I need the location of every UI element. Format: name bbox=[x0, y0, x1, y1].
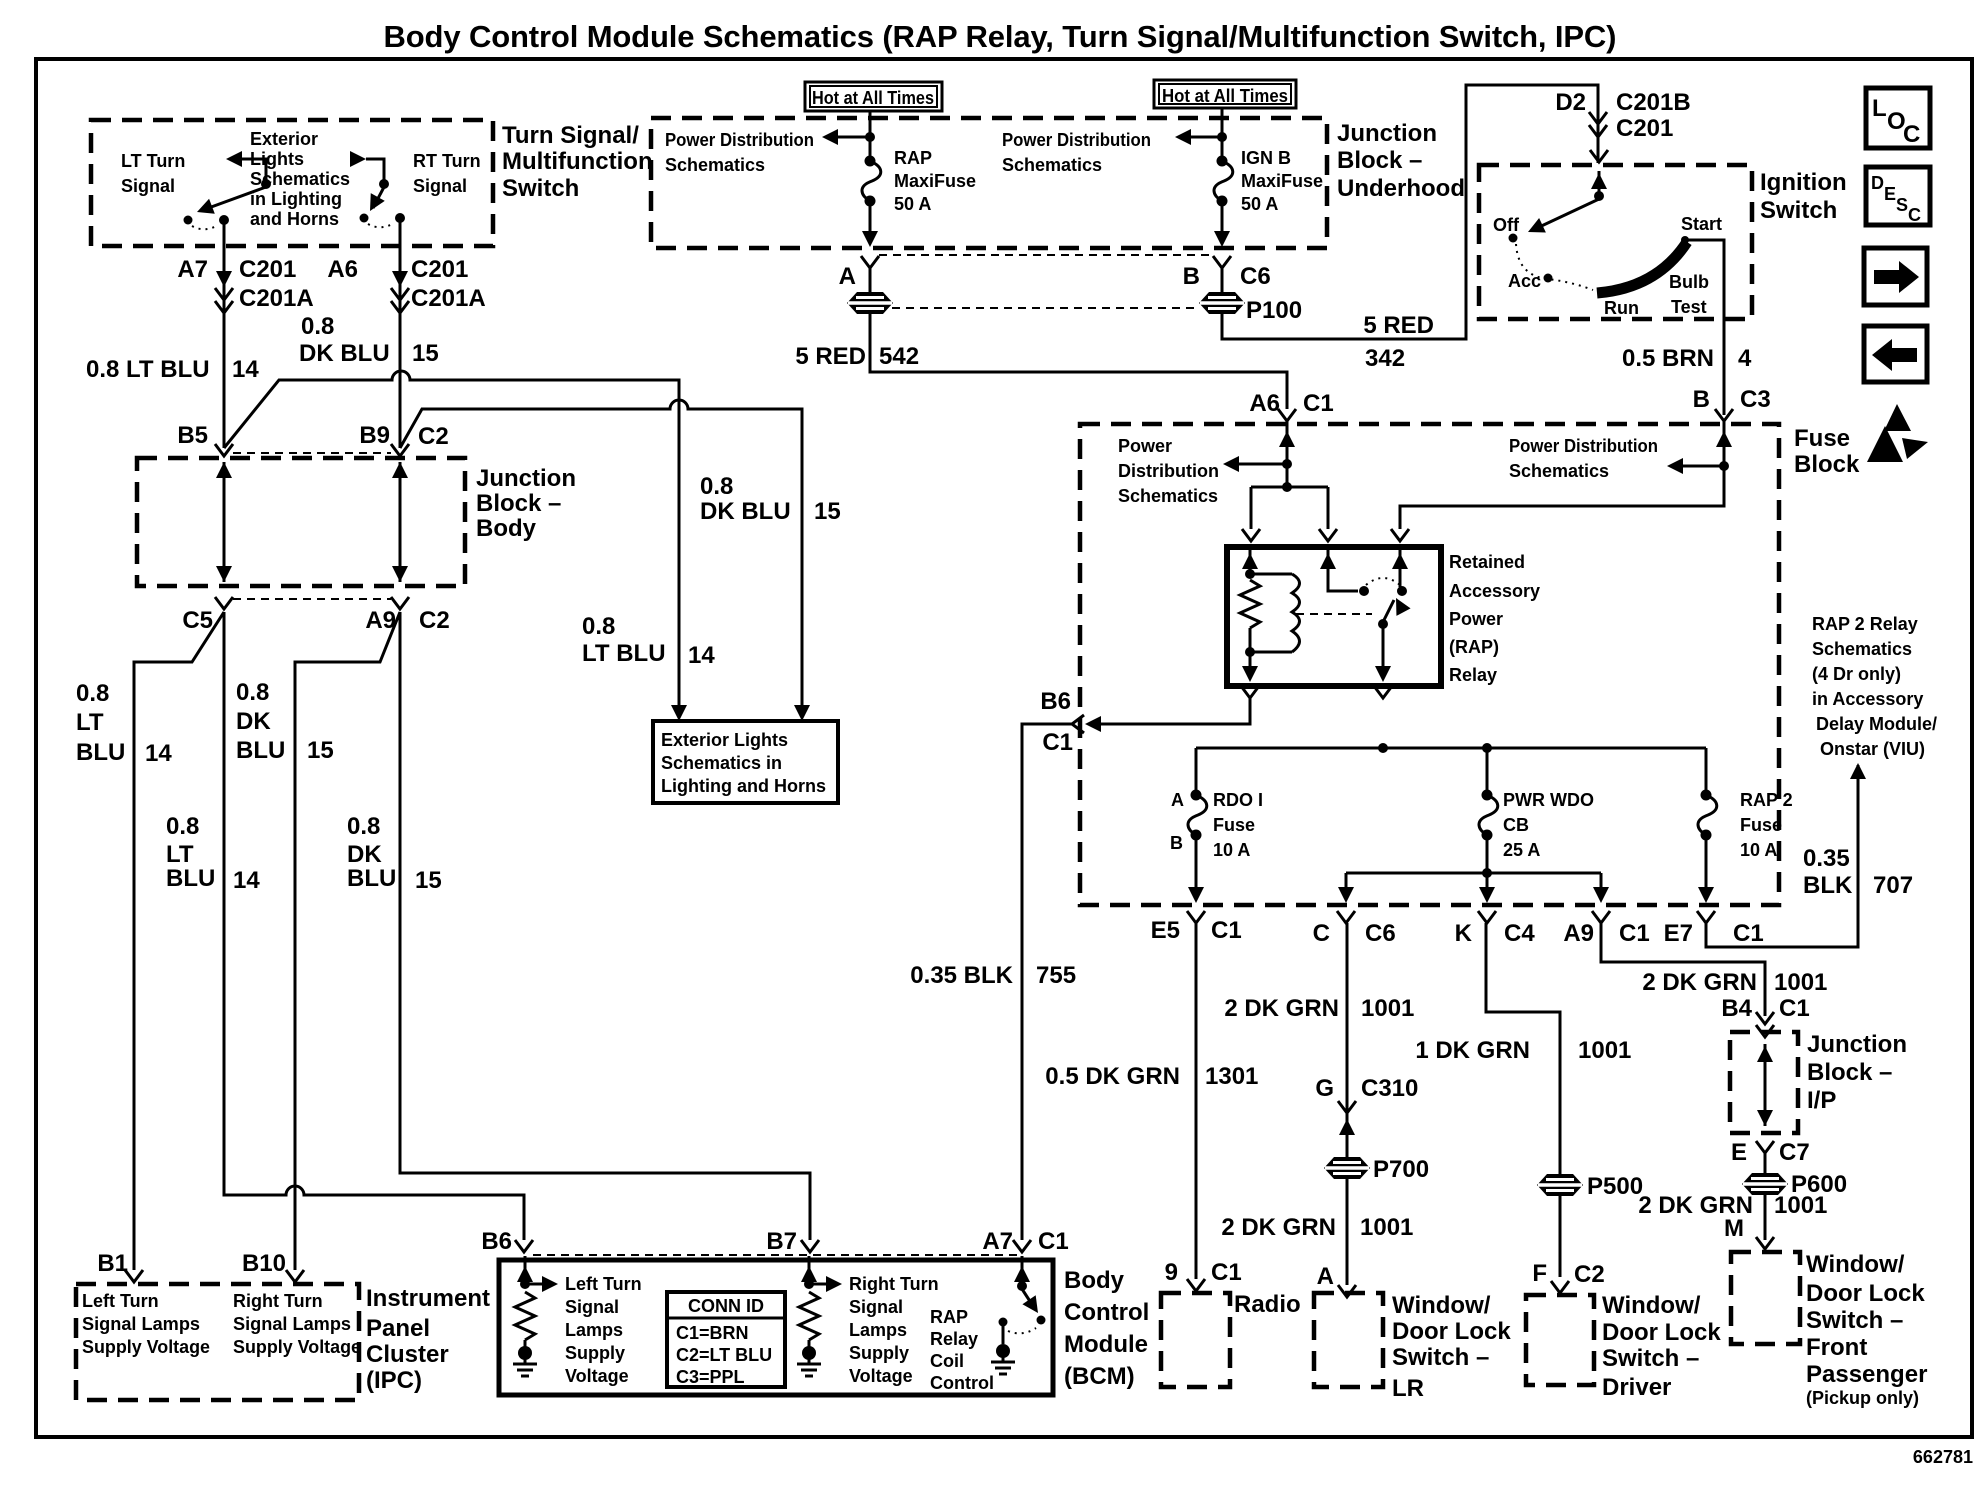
svg-text:Schematics in: Schematics in bbox=[661, 753, 782, 773]
connector E7/C1 bbox=[1697, 911, 1715, 923]
connector A underhood bbox=[861, 256, 879, 268]
svg-text:B: B bbox=[1183, 263, 1200, 290]
svg-text:Fuse: Fuse bbox=[1794, 425, 1850, 452]
svg-text:15: 15 bbox=[814, 498, 841, 525]
grommet connector P100 bbox=[1199, 292, 1245, 314]
svg-text:Signal: Signal bbox=[849, 1297, 903, 1317]
wire through JB body right bbox=[399, 462, 402, 582]
junction A6 bus tee bbox=[1282, 482, 1292, 492]
svg-text:0.8: 0.8 bbox=[236, 679, 269, 706]
svg-text:C1: C1 bbox=[1619, 920, 1650, 947]
fuse IGN B MaxiFuse 50A bbox=[1214, 156, 1233, 207]
svg-text:Body Control Module Schematics: Body Control Module Schematics (RAP Rela… bbox=[384, 19, 1617, 54]
junction block - underhood dashed box bbox=[651, 118, 1327, 248]
svg-text:P500: P500 bbox=[1587, 1173, 1643, 1200]
svg-text:Junction: Junction bbox=[1807, 1031, 1907, 1058]
contact relay pin3 bbox=[1397, 586, 1407, 596]
window/door lock switch front passenger dashed box bbox=[1731, 1252, 1800, 1344]
wire RT switch common bbox=[366, 159, 384, 183]
connector C201/C201A at A6 bbox=[391, 288, 409, 313]
svg-text:755: 755 bbox=[1036, 962, 1076, 989]
dashed connector line BCM top bbox=[533, 1254, 1020, 1256]
svg-text:Left Turn: Left Turn bbox=[82, 1291, 159, 1311]
arrowhead A7 down bbox=[216, 271, 232, 287]
arrowhead power dist 1 bbox=[822, 129, 838, 145]
wire RDO fuse feed bbox=[1195, 748, 1198, 792]
svg-text:Lamps: Lamps bbox=[849, 1320, 907, 1340]
connector at C5 bbox=[215, 597, 233, 609]
svg-text:50 A: 50 A bbox=[1241, 194, 1278, 214]
wire relay pin3 internal bbox=[1399, 549, 1402, 587]
ground BCM right bbox=[797, 1346, 821, 1376]
svg-text:Signal Lamps: Signal Lamps bbox=[233, 1314, 351, 1334]
dotted travel arc LT switch bbox=[192, 225, 218, 229]
svg-text:PWR WDO: PWR WDO bbox=[1503, 790, 1594, 810]
arrowhead RAP maxifuse down bbox=[862, 231, 878, 247]
wire RT switch arm bbox=[373, 187, 384, 208]
wire ignition arm bbox=[1535, 199, 1599, 229]
svg-text:C: C bbox=[1908, 205, 1921, 225]
svg-text:2 DK GRN: 2 DK GRN bbox=[1642, 969, 1757, 996]
svg-text:Passenger: Passenger bbox=[1806, 1361, 1927, 1388]
svg-text:RAP: RAP bbox=[930, 1307, 968, 1327]
svg-text:15: 15 bbox=[307, 737, 334, 764]
wire IGN B maxifuse feed bbox=[1221, 107, 1224, 160]
svg-text:BLK: BLK bbox=[1803, 872, 1853, 899]
svg-text:Module: Module bbox=[1064, 1331, 1148, 1358]
svg-text:Signal: Signal bbox=[413, 176, 467, 196]
connector A9/C1 bbox=[1592, 911, 1610, 923]
wire BCM left to ground bbox=[524, 1340, 527, 1347]
svg-text:1001: 1001 bbox=[1774, 969, 1827, 996]
fuse RAP MaxiFuse 50A bbox=[862, 156, 881, 207]
svg-text:C: C bbox=[1903, 121, 1920, 148]
arrowhead IGN B down bbox=[1214, 231, 1230, 247]
svg-text:MaxiFuse: MaxiFuse bbox=[894, 171, 976, 191]
svg-text:0.5 BRN: 0.5 BRN bbox=[1622, 345, 1714, 372]
svg-text:RAP 2 Relay: RAP 2 Relay bbox=[1812, 614, 1918, 634]
fuse RAP 2 10A bbox=[1698, 790, 1717, 841]
svg-text:C201B: C201B bbox=[1616, 89, 1691, 116]
resistor BCM right lamp bbox=[799, 1292, 819, 1340]
wire relay pin1 internal bbox=[1249, 549, 1252, 574]
dashed connector line C5-A9 bbox=[233, 598, 391, 600]
junction bus and PWR WDO bbox=[1482, 743, 1492, 753]
svg-text:Instrument: Instrument bbox=[366, 1285, 490, 1312]
wire relay coil bottom out bbox=[1249, 628, 1252, 678]
arrowhead up JB body right bbox=[392, 462, 408, 478]
wire ignition feed bbox=[1598, 171, 1601, 196]
svg-text:A: A bbox=[1171, 790, 1184, 810]
junction relay coil top bbox=[1245, 569, 1255, 579]
svg-text:A9: A9 bbox=[1563, 920, 1594, 947]
svg-text:A: A bbox=[839, 263, 856, 290]
contact Acc bbox=[1544, 274, 1553, 283]
svg-text:Block –: Block – bbox=[1337, 147, 1422, 174]
svg-text:Signal: Signal bbox=[121, 176, 175, 196]
connector relay pin 5 out bbox=[1374, 686, 1392, 698]
svg-text:Window/: Window/ bbox=[1602, 1292, 1701, 1319]
wire RAP maxifuse feed bbox=[869, 111, 872, 160]
connector E5/C1 bbox=[1187, 911, 1205, 923]
arrowhead up JB I/P bbox=[1757, 1046, 1773, 1062]
svg-text:662781: 662781 bbox=[1913, 1447, 1973, 1467]
junction B power dist tap bbox=[1719, 461, 1729, 471]
svg-text:2 DK GRN: 2 DK GRN bbox=[1224, 995, 1339, 1022]
svg-text:BLU: BLU bbox=[166, 865, 215, 892]
svg-text:Power Distribution: Power Distribution bbox=[1509, 436, 1658, 456]
arrowhead B6 exit bbox=[1085, 716, 1101, 732]
arrowhead up BCM left bbox=[517, 1266, 533, 1282]
svg-text:C3: C3 bbox=[1740, 386, 1771, 413]
connector at B1 bbox=[125, 1270, 143, 1282]
svg-text:Block –: Block – bbox=[1807, 1059, 1892, 1086]
svg-text:Schematics: Schematics bbox=[1509, 461, 1609, 481]
thick arc Run to Start bbox=[1597, 242, 1687, 293]
junction block - body dashed box bbox=[137, 458, 465, 586]
CONN ID table bbox=[667, 1292, 785, 1387]
svg-text:Hot at All Times: Hot at All Times bbox=[812, 88, 934, 108]
wire relay arm out bbox=[1382, 624, 1385, 678]
junction LT switch common bbox=[261, 179, 271, 189]
svg-text:Switch: Switch bbox=[502, 175, 579, 202]
svg-text:DK: DK bbox=[236, 708, 271, 735]
svg-text:CONN ID: CONN ID bbox=[688, 1296, 764, 1316]
arrowhead A6 down bbox=[392, 271, 408, 287]
Hot at All Times box 1 bbox=[805, 82, 942, 111]
svg-text:50 A: 50 A bbox=[894, 194, 931, 214]
svg-text:Door Lock: Door Lock bbox=[1806, 1280, 1925, 1307]
ESD sensitivity symbol bbox=[1867, 404, 1928, 462]
wire A to grommet bbox=[869, 268, 872, 293]
svg-text:Radio: Radio bbox=[1234, 1291, 1301, 1318]
svg-text:1001: 1001 bbox=[1578, 1037, 1631, 1064]
wire to A9/C1 bbox=[1600, 873, 1603, 889]
svg-text:0.8 LT BLU: 0.8 LT BLU bbox=[86, 356, 210, 383]
connector relay pin 1 bbox=[1242, 529, 1260, 541]
arrowhead power dist 4 bbox=[1667, 458, 1683, 474]
svg-text:B: B bbox=[1693, 386, 1710, 413]
wire BCM rap switch arm bbox=[1022, 1289, 1035, 1309]
wire LT switch common bbox=[242, 159, 266, 183]
contact BCM rap ground bbox=[999, 1318, 1008, 1327]
junction BCM right bbox=[804, 1279, 814, 1289]
svg-text:Hot at All Times: Hot at All Times bbox=[1162, 86, 1288, 106]
wire A9 to JB I/P bbox=[1601, 923, 1765, 1016]
arrowhead G up bbox=[1339, 1119, 1355, 1135]
right arrow button bbox=[1864, 248, 1927, 305]
wire to power dist left 2 bbox=[1189, 136, 1222, 139]
svg-text:1001: 1001 bbox=[1774, 1192, 1827, 1219]
grommet P500 bbox=[1537, 1174, 1583, 1196]
svg-text:C1: C1 bbox=[1211, 917, 1242, 944]
junction IGN B tap bbox=[1217, 132, 1227, 142]
wire RDO out bbox=[1195, 835, 1198, 889]
body control module box bbox=[499, 1260, 1053, 1395]
wire power dist arrow 3 bbox=[1237, 463, 1287, 466]
svg-text:B10: B10 bbox=[242, 1250, 286, 1277]
svg-text:Supply: Supply bbox=[849, 1343, 909, 1363]
svg-text:in Accessory: in Accessory bbox=[1812, 689, 1923, 709]
svg-text:5 RED: 5 RED bbox=[795, 343, 866, 370]
turn signal / multifunction switch dashed box bbox=[91, 120, 493, 246]
arrowhead LT switch arm bbox=[194, 199, 215, 220]
bus PWR WDO outputs bbox=[1346, 872, 1601, 875]
svg-text:Schematics: Schematics bbox=[1118, 486, 1218, 506]
svg-text:DK BLU: DK BLU bbox=[700, 498, 791, 525]
svg-text:Schematics: Schematics bbox=[1002, 155, 1102, 175]
arrowhead down JB body left bbox=[216, 566, 232, 582]
svg-text:RDO I: RDO I bbox=[1213, 790, 1263, 810]
svg-text:(Pickup only): (Pickup only) bbox=[1806, 1388, 1919, 1408]
arrowhead up BCM right bbox=[801, 1266, 817, 1282]
wire K to driver switch bbox=[1486, 923, 1560, 1277]
arrowhead relay pin5 down bbox=[1375, 666, 1391, 682]
svg-text:B4: B4 bbox=[1721, 995, 1752, 1022]
svg-text:14: 14 bbox=[145, 740, 172, 767]
svg-text:0.8: 0.8 bbox=[166, 813, 199, 840]
svg-text:Schematics: Schematics bbox=[665, 155, 765, 175]
svg-text:Power Distribution: Power Distribution bbox=[1002, 130, 1151, 150]
svg-text:Left Turn: Left Turn bbox=[565, 1274, 642, 1294]
svg-text:Fuse: Fuse bbox=[1213, 815, 1255, 835]
svg-text:C1: C1 bbox=[1211, 1259, 1242, 1286]
node A6 contact bbox=[395, 213, 405, 223]
connector B4/C1 bbox=[1756, 1012, 1774, 1037]
contact Start bbox=[1681, 236, 1689, 244]
svg-text:15: 15 bbox=[412, 340, 439, 367]
Hot at All Times box 2 bbox=[1154, 80, 1296, 108]
bus relay feed bbox=[1251, 486, 1328, 489]
connector at A9 bbox=[391, 597, 409, 609]
svg-text:M: M bbox=[1724, 1215, 1744, 1242]
svg-text:I/P: I/P bbox=[1807, 1087, 1836, 1114]
dashed connector line A-B bbox=[879, 254, 1213, 256]
wire BCM left arrow bbox=[525, 1283, 548, 1286]
connector at B5 bbox=[215, 444, 233, 456]
svg-text:(IPC): (IPC) bbox=[366, 1367, 422, 1394]
arrowhead power dist 2 bbox=[1175, 129, 1191, 145]
svg-text:1 DK GRN: 1 DK GRN bbox=[1415, 1037, 1530, 1064]
ground BCM left bbox=[513, 1346, 537, 1376]
svg-text:Off: Off bbox=[1493, 215, 1520, 235]
junction block - I/P dashed box bbox=[1730, 1032, 1798, 1133]
svg-text:0.35: 0.35 bbox=[1803, 845, 1850, 872]
svg-text:Ignition: Ignition bbox=[1760, 169, 1847, 196]
svg-text:RT Turn: RT Turn bbox=[413, 151, 481, 171]
connector B/C3 entry bbox=[1715, 409, 1733, 421]
svg-text:Door Lock: Door Lock bbox=[1602, 1319, 1721, 1346]
svg-text:Right Turn: Right Turn bbox=[849, 1274, 939, 1294]
svg-text:5 RED: 5 RED bbox=[1363, 312, 1434, 339]
svg-text:2 DK GRN: 2 DK GRN bbox=[1221, 1214, 1336, 1241]
fuse RDO I 10A bbox=[1188, 790, 1207, 841]
connector M entry bbox=[1756, 1237, 1774, 1249]
svg-text:B9: B9 bbox=[359, 422, 390, 449]
arrowhead A9 down bbox=[1593, 887, 1609, 903]
resistor BCM left lamp bbox=[515, 1292, 535, 1340]
svg-text:Body: Body bbox=[1064, 1267, 1125, 1294]
grommet P700 bbox=[1324, 1157, 1370, 1179]
svg-text:Block –: Block – bbox=[476, 490, 561, 517]
svg-text:Acc: Acc bbox=[1508, 271, 1541, 291]
grommet P600 bbox=[1742, 1173, 1788, 1195]
svg-text:A6: A6 bbox=[1249, 390, 1280, 417]
svg-text:C: C bbox=[1313, 920, 1330, 947]
svg-text:Lighting and Horns: Lighting and Horns bbox=[661, 776, 826, 796]
svg-text:E7: E7 bbox=[1664, 920, 1693, 947]
wire BCM rap coil feed bbox=[1021, 1256, 1024, 1284]
wire C5 to B1 bbox=[134, 612, 224, 1270]
svg-text:LT Turn: LT Turn bbox=[121, 151, 185, 171]
svg-text:Power Distribution: Power Distribution bbox=[665, 130, 814, 150]
svg-text:Run: Run bbox=[1604, 298, 1639, 318]
wire B entry to relay pin 3 bbox=[1400, 421, 1724, 529]
LOC button bbox=[1866, 88, 1930, 148]
resistor relay bbox=[1240, 580, 1260, 628]
svg-text:C2: C2 bbox=[1574, 1261, 1605, 1288]
node A7 contact bbox=[219, 215, 229, 225]
radio dashed box bbox=[1161, 1293, 1230, 1387]
svg-text:C6: C6 bbox=[1365, 920, 1396, 947]
svg-text:D2: D2 bbox=[1555, 89, 1586, 116]
wire DK BLU branch run bbox=[400, 400, 802, 714]
dotted travel arc RT switch bbox=[368, 223, 394, 227]
arrowhead right BCM left bbox=[542, 1276, 558, 1292]
svg-text:4: 4 bbox=[1738, 345, 1752, 372]
arrowhead relay pin3 up bbox=[1392, 553, 1408, 569]
junction BCM left bbox=[520, 1279, 530, 1289]
svg-text:C1: C1 bbox=[1779, 995, 1810, 1022]
svg-text:C2: C2 bbox=[419, 607, 450, 634]
svg-text:Cluster: Cluster bbox=[366, 1341, 449, 1368]
window/door lock switch LR dashed box bbox=[1314, 1293, 1383, 1387]
svg-text:Turn Signal/: Turn Signal/ bbox=[502, 122, 639, 149]
svg-text:A: A bbox=[1317, 1263, 1334, 1290]
svg-text:707: 707 bbox=[1873, 872, 1913, 899]
svg-text:B1: B1 bbox=[97, 1250, 128, 1277]
svg-text:Window/: Window/ bbox=[1806, 1251, 1905, 1278]
svg-text:C5: C5 bbox=[182, 607, 213, 634]
svg-text:F: F bbox=[1532, 1260, 1547, 1287]
svg-text:Power: Power bbox=[1118, 436, 1172, 456]
svg-text:Voltage: Voltage bbox=[849, 1366, 913, 1386]
svg-text:Signal: Signal bbox=[565, 1297, 619, 1317]
connector at B9 bbox=[391, 444, 409, 456]
arrowhead relay pin4 down bbox=[1242, 666, 1258, 682]
wire ignition Start output bbox=[1685, 240, 1724, 415]
wire A9 to B10 bbox=[295, 612, 400, 1270]
svg-text:B5: B5 bbox=[177, 422, 208, 449]
window/door lock switch driver dashed box bbox=[1526, 1295, 1594, 1385]
svg-text:Driver: Driver bbox=[1602, 1374, 1671, 1401]
dashed grommet line bbox=[892, 307, 1200, 309]
contact BCM rap arm bbox=[1037, 1316, 1046, 1325]
svg-text:Supply Voltage: Supply Voltage bbox=[233, 1337, 361, 1357]
svg-text:Switch –: Switch – bbox=[1392, 1344, 1489, 1371]
svg-text:Front: Front bbox=[1806, 1334, 1867, 1361]
svg-text:Supply: Supply bbox=[565, 1343, 625, 1363]
wire relay pin2 internal bbox=[1328, 549, 1358, 591]
instrument panel cluster dashed box bbox=[76, 1284, 359, 1400]
arrowhead right BCM right bbox=[826, 1276, 842, 1292]
svg-text:C4: C4 bbox=[1504, 920, 1535, 947]
svg-text:10 A: 10 A bbox=[1213, 840, 1250, 860]
svg-text:Exterior: Exterior bbox=[250, 129, 318, 149]
connector relay pin 2 bbox=[1319, 529, 1337, 541]
connector at B7 bbox=[801, 1240, 819, 1252]
circuit breaker PWR WDO 25A bbox=[1479, 790, 1498, 841]
junction PWR WDO bus2 bbox=[1482, 868, 1492, 878]
wire BCM rap to ground bbox=[1002, 1326, 1005, 1344]
svg-text:Door Lock: Door Lock bbox=[1392, 1318, 1511, 1345]
contact Off bbox=[1509, 234, 1518, 243]
wire A6 entry drop bbox=[1286, 421, 1289, 487]
svg-text:Delay Module/: Delay Module/ bbox=[1816, 714, 1937, 734]
contact relay fixed bbox=[1359, 586, 1369, 596]
svg-text:Accessory: Accessory bbox=[1449, 581, 1540, 601]
wire PWR WDO feed bbox=[1486, 748, 1489, 793]
svg-text:RAP: RAP bbox=[894, 148, 932, 168]
svg-text:and Horns: and Horns bbox=[250, 209, 339, 229]
svg-text:342: 342 bbox=[1365, 345, 1405, 372]
wire A6 drop bbox=[399, 218, 402, 448]
svg-text:Test: Test bbox=[1671, 297, 1707, 317]
wire LT switch arm bbox=[203, 187, 266, 210]
svg-text:1001: 1001 bbox=[1360, 1214, 1413, 1241]
wire relay to B6 exit bbox=[1097, 698, 1250, 724]
wire B to grommet bbox=[1221, 268, 1224, 293]
wire to power dist left 1 bbox=[836, 136, 870, 139]
wire RAP 2 fuse feed bbox=[1705, 748, 1708, 793]
wire IGN B maxifuse out bbox=[1221, 201, 1224, 234]
svg-text:0.8: 0.8 bbox=[76, 680, 109, 707]
svg-text:E5: E5 bbox=[1151, 917, 1180, 944]
arrowhead into exterior lights right bbox=[794, 705, 810, 721]
svg-text:0.5 DK GRN: 0.5 DK GRN bbox=[1045, 1063, 1180, 1090]
svg-text:Block: Block bbox=[1794, 451, 1860, 478]
wire BCM right lamp feed bbox=[808, 1256, 811, 1283]
svg-text:P100: P100 bbox=[1246, 297, 1302, 324]
svg-text:C201A: C201A bbox=[239, 285, 314, 312]
wire BCM right arrow bbox=[809, 1283, 832, 1286]
svg-text:9: 9 bbox=[1165, 1259, 1178, 1286]
svg-text:Junction: Junction bbox=[1337, 120, 1437, 147]
svg-text:Window/: Window/ bbox=[1392, 1292, 1491, 1319]
svg-text:E: E bbox=[1731, 1139, 1747, 1166]
svg-text:Onstar (VIU): Onstar (VIU) bbox=[1820, 739, 1925, 759]
svg-text:Control: Control bbox=[1064, 1299, 1149, 1326]
arrowhead down JB body right bbox=[392, 566, 408, 582]
arrowhead 707 up bbox=[1850, 763, 1866, 779]
junction A6 power dist tap bbox=[1282, 459, 1292, 469]
svg-text:C1: C1 bbox=[1733, 920, 1764, 947]
svg-text:Underhood: Underhood bbox=[1337, 175, 1465, 202]
connector ignition feed bbox=[1590, 150, 1608, 162]
svg-text:C7: C7 bbox=[1779, 1139, 1810, 1166]
svg-text:14: 14 bbox=[232, 356, 259, 383]
svg-text:LT BLU: LT BLU bbox=[582, 640, 666, 667]
wire A7 drop bbox=[223, 220, 226, 448]
svg-text:Control: Control bbox=[930, 1373, 994, 1393]
svg-text:A7: A7 bbox=[982, 1228, 1013, 1255]
arrowhead C down bbox=[1338, 887, 1354, 903]
dashed connector line B5-B9 bbox=[233, 452, 391, 454]
wire PWR WDO out bbox=[1486, 835, 1489, 889]
svg-text:B6: B6 bbox=[1040, 688, 1071, 715]
svg-text:G: G bbox=[1315, 1075, 1334, 1102]
svg-text:C201A: C201A bbox=[411, 285, 486, 312]
